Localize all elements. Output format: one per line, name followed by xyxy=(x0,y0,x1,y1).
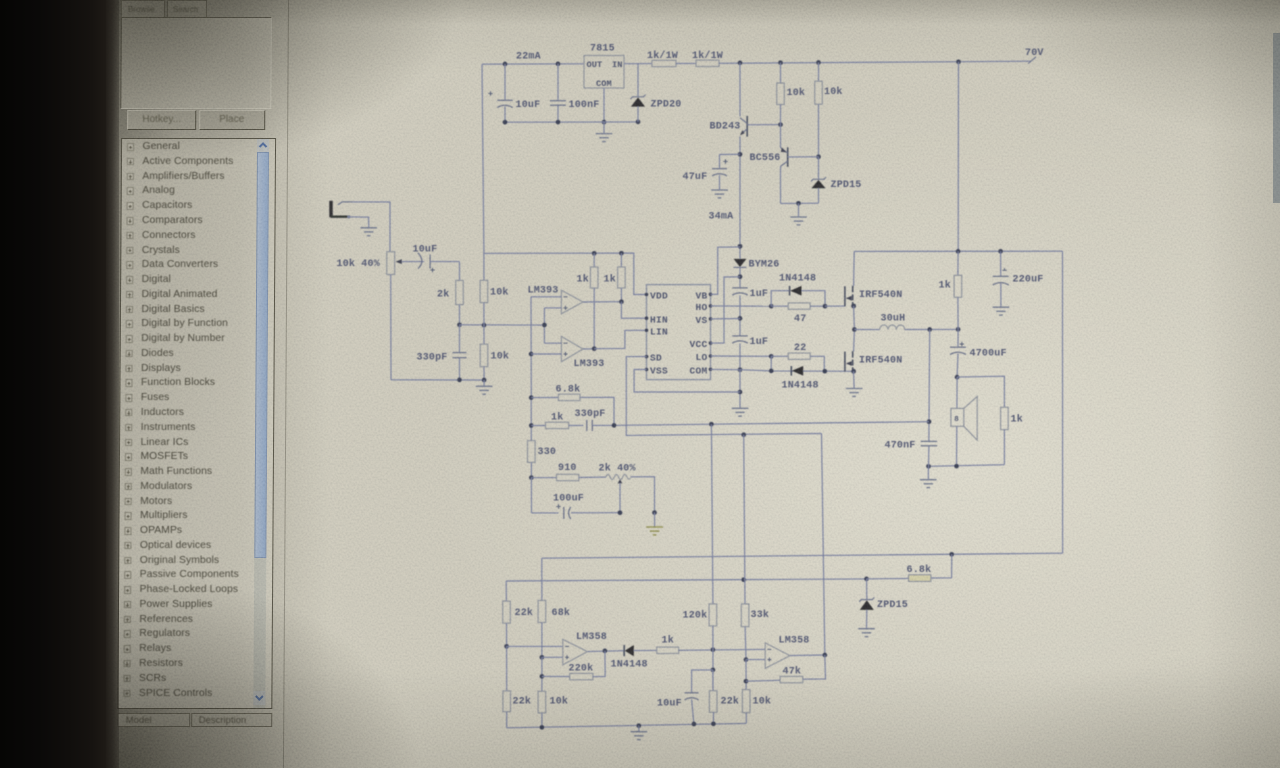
label 10k 40% xyxy=(337,258,380,270)
svg-text:1k/1W: 1k/1W xyxy=(692,50,723,62)
wire lf bottom xyxy=(507,723,747,727)
resistor R19 220k xyxy=(542,651,605,680)
node 425-120k xyxy=(709,422,714,427)
label 6.8k R14 xyxy=(907,564,932,576)
resistor R22 22k xyxy=(709,670,717,724)
resistor R7 10k lower xyxy=(480,344,488,380)
svg-text:1k: 1k xyxy=(577,274,589,286)
node out-470nF xyxy=(927,327,932,332)
svg-text:68k: 68k xyxy=(552,607,571,619)
capacitor C3 47uF xyxy=(712,154,740,189)
node mid rail 325 xyxy=(482,323,487,328)
label IRF540N M1 xyxy=(859,290,902,301)
svg-text:330pF: 330pF xyxy=(417,353,448,364)
wire 33k drop xyxy=(744,627,747,660)
node U4A noninv xyxy=(540,655,545,660)
label 1k R12 xyxy=(939,280,951,292)
label 1k R20 xyxy=(662,635,674,647)
svg-text:6.8k: 6.8k xyxy=(907,564,932,576)
resistor R28 6.8k xyxy=(558,394,580,400)
pin HIN xyxy=(645,314,668,325)
wire 22k row xyxy=(506,579,866,581)
wire x740 from 34mA xyxy=(739,246,741,258)
svg-text:1k: 1k xyxy=(662,635,674,647)
wire R1-R2 xyxy=(676,62,696,64)
wire 1k branch top xyxy=(957,376,1004,407)
wire 22k riser xyxy=(505,581,507,601)
wire SD path xyxy=(626,357,821,436)
wire 68k riser xyxy=(541,558,543,600)
label 1k R29 xyxy=(551,412,563,424)
node rail2-220uF xyxy=(998,249,1003,254)
label 470nF xyxy=(885,441,916,452)
svg-text:10uF: 10uF xyxy=(516,100,541,111)
svg-text:10k: 10k xyxy=(753,696,772,708)
svg-text:BD243: BD243 xyxy=(710,122,741,133)
pin LIN xyxy=(645,326,668,337)
wire LIN path xyxy=(594,330,646,348)
svg-text:OUT: OUT xyxy=(587,60,603,70)
label 4700uF xyxy=(970,349,1007,360)
node HO loop left xyxy=(769,304,774,309)
svg-text:47k: 47k xyxy=(783,666,802,678)
svg-text:33k: 33k xyxy=(751,609,770,621)
svg-text:1N4148: 1N4148 xyxy=(611,660,648,671)
comparator U1B LM393 xyxy=(561,336,583,361)
resistor R12 1k xyxy=(954,251,962,329)
wire 1k-cap xyxy=(569,424,584,426)
svg-text:47: 47 xyxy=(794,314,806,325)
svg-text:SD: SD xyxy=(650,353,662,364)
label 10uF C11 xyxy=(657,699,682,710)
capacitor C12 100uF xyxy=(531,478,620,519)
svg-text:220k: 220k xyxy=(569,663,594,675)
node LO loop bl xyxy=(769,369,774,374)
svg-text:22k: 22k xyxy=(513,696,532,708)
capacitor C13 330pF xyxy=(587,420,614,431)
connector J1 audio jack xyxy=(329,201,352,219)
svg-text:47uF: 47uF xyxy=(683,172,708,183)
svg-text:30uH: 30uH xyxy=(881,314,906,325)
wire Q2 collector drop xyxy=(780,166,782,203)
resistor R8 1k xyxy=(590,253,598,348)
wire U4B out xyxy=(790,654,825,657)
node U4B noninv xyxy=(744,657,749,662)
node 1kA top xyxy=(592,251,597,256)
label 10uF xyxy=(516,100,541,111)
node lf3 xyxy=(692,722,697,727)
label 22k R22 xyxy=(721,696,740,708)
resistor R15 33k xyxy=(741,604,749,627)
node LO loop br xyxy=(822,369,827,374)
label 120k xyxy=(683,610,708,622)
label 22k R17 xyxy=(515,607,534,619)
node lf4 xyxy=(711,721,716,726)
wire R17b drop xyxy=(506,646,508,691)
wire 6.8k right xyxy=(580,397,614,425)
wire rail x740 mid xyxy=(739,136,741,246)
diode D2 1N4148 xyxy=(790,286,802,296)
resistor R9 1k xyxy=(618,253,626,302)
label BC556 xyxy=(750,153,781,164)
zener diode ZPD20 xyxy=(631,64,646,122)
svg-text:1N4148: 1N4148 xyxy=(782,381,819,392)
node U4B out xyxy=(822,653,827,658)
label 1N4148 D4 xyxy=(611,660,648,671)
svg-text:1k: 1k xyxy=(1011,414,1023,426)
comparator U1A LM393 xyxy=(561,290,583,314)
svg-text:10k: 10k xyxy=(491,351,510,363)
svg-text:6.8k: 6.8k xyxy=(556,384,581,396)
capacitor C4 10uF plates xyxy=(418,253,430,269)
node rail x780 xyxy=(778,60,783,65)
polarity + C1 xyxy=(488,91,492,95)
resistor R25 10k xyxy=(538,691,546,727)
wire HO loop right xyxy=(802,291,826,307)
wire VCC path xyxy=(711,277,741,343)
potentiometer P1 wiper xyxy=(396,259,425,264)
wire bias bottom xyxy=(781,202,819,204)
pin SD xyxy=(645,353,662,364)
label 7815 xyxy=(590,44,615,55)
wire speaker bottom stem xyxy=(956,426,958,466)
polarity + C8 xyxy=(1002,268,1006,270)
wire C4 to 2k xyxy=(430,262,459,281)
capacitor C6 1uF xyxy=(732,288,748,295)
node 553-6.8k xyxy=(949,552,954,557)
svg-text:22k: 22k xyxy=(721,696,740,708)
svg-text:IRF540N: IRF540N xyxy=(859,356,902,367)
svg-text:IN: IN xyxy=(612,60,623,70)
wire U1A output xyxy=(583,301,621,303)
pin label OUT xyxy=(587,60,603,70)
svg-text:1uF: 1uF xyxy=(750,289,769,300)
wire VB path xyxy=(711,247,741,294)
wire 1k branch bottom xyxy=(1003,430,1005,465)
svg-text:VCC: VCC xyxy=(689,339,707,350)
svg-text:120k: 120k xyxy=(683,610,708,622)
wire 33k riser xyxy=(744,435,745,604)
opamp U4A LM358 xyxy=(563,639,588,665)
resistor R27 910 xyxy=(531,474,578,480)
wire 1k row xyxy=(531,425,545,427)
wire BYM26-C6 xyxy=(739,267,741,287)
wire top rail left segment xyxy=(482,63,584,65)
node rail x740 xyxy=(738,61,743,66)
svg-text:1k: 1k xyxy=(551,412,563,424)
wire 33k drop2 xyxy=(745,660,747,690)
svg-text:10k: 10k xyxy=(787,87,806,99)
wire U4A inv row xyxy=(507,645,563,647)
node C2 bottom xyxy=(556,120,561,125)
resistor R26 330 xyxy=(528,398,536,478)
node 120k-row xyxy=(711,647,716,652)
label BD243 xyxy=(710,122,741,133)
capacitor C7 1uF xyxy=(732,336,748,343)
regulator U2 7815 box xyxy=(584,56,624,89)
node COM bottom xyxy=(602,120,607,125)
wire pot bottom drop xyxy=(390,275,392,380)
node COM junction xyxy=(738,367,743,372)
gate driver U3 box xyxy=(647,285,711,380)
svg-text:10k: 10k xyxy=(824,86,843,98)
svg-text:1k: 1k xyxy=(604,274,616,286)
wire right rail drop xyxy=(1062,251,1064,553)
node half-bridge mid xyxy=(852,327,857,332)
wire U4B noninv row xyxy=(746,659,765,661)
node pot wiper bottom xyxy=(618,510,623,515)
svg-text:10uF: 10uF xyxy=(657,699,682,710)
svg-text:1N4148: 1N4148 xyxy=(779,274,816,285)
wire U1B input a xyxy=(544,342,561,344)
node 6.8krow xyxy=(529,395,534,400)
wire HO row xyxy=(711,305,772,307)
label LM393 upper xyxy=(528,286,559,297)
label 330 xyxy=(538,447,557,458)
wire M1 drain xyxy=(853,251,856,286)
wire mid to L1 xyxy=(854,329,879,331)
opamp U4B LM358 xyxy=(765,643,790,669)
ground bias xyxy=(790,203,807,225)
ground pot xyxy=(646,513,663,535)
node 22krow-zener xyxy=(864,577,869,582)
pin VS xyxy=(695,315,712,326)
svg-text:VB: VB xyxy=(695,290,707,301)
svg-text:VDD: VDD xyxy=(650,291,668,302)
label 10k R6 xyxy=(490,287,509,299)
svg-text:10k 40%: 10k 40% xyxy=(337,258,380,270)
label 10k R4 xyxy=(824,86,843,98)
ground ZPD15 b xyxy=(858,629,875,637)
wire R10 to gate xyxy=(810,305,825,307)
capacitor C2 100nF plates xyxy=(550,101,566,106)
svg-text:2k 40%: 2k 40% xyxy=(599,463,636,475)
node C1 bottom xyxy=(503,120,508,125)
wire U1B input b xyxy=(531,353,561,355)
pin label IN xyxy=(612,60,623,70)
transistor M2 IRF540N xyxy=(845,351,856,374)
node speaker bottom xyxy=(954,464,959,469)
label 68k R18 xyxy=(552,607,571,619)
label BYM26 xyxy=(749,260,780,271)
wire pot right xyxy=(630,477,654,513)
label 70V xyxy=(1025,48,1044,59)
wire rail to R1 xyxy=(624,63,652,65)
node 22krow-33k xyxy=(741,577,746,582)
wire R11 right xyxy=(810,356,824,371)
resistor R4 10k xyxy=(815,63,823,157)
node R5-C5 xyxy=(457,322,462,327)
svg-text:LM358: LM358 xyxy=(576,632,607,643)
label 220uF xyxy=(1013,275,1044,286)
wire COM row xyxy=(711,369,854,371)
wire C6-VS xyxy=(739,295,741,335)
resistor R21 47k xyxy=(746,655,826,683)
svg-text:4700uF: 4700uF xyxy=(970,349,1007,360)
node HO loop right xyxy=(823,304,828,309)
wire M2 drain xyxy=(853,330,856,352)
wire U1A inv input xyxy=(531,296,561,298)
pin label COM xyxy=(596,79,612,89)
label 22 xyxy=(794,343,806,354)
wire SD drop to opamp xyxy=(822,434,825,656)
svg-text:22: 22 xyxy=(794,343,806,354)
ground osc xyxy=(476,380,493,394)
wire VS path xyxy=(711,318,741,320)
wire osc bottom xyxy=(391,379,484,381)
node LO loop left xyxy=(769,354,774,359)
capacitor C1 10uF plates xyxy=(497,100,513,107)
label 1N4148 D2 xyxy=(779,274,816,285)
node Q1 base-R3 xyxy=(778,122,783,127)
ground C3 xyxy=(711,190,728,198)
pin HO xyxy=(695,302,712,313)
node 470nF top xyxy=(927,419,932,424)
terminal 70V tick xyxy=(1028,57,1036,64)
node osc gnd xyxy=(482,378,487,383)
node VSS junction xyxy=(738,390,743,395)
label 1k R9 xyxy=(604,274,616,286)
label 1k R8 xyxy=(577,274,589,286)
label 330pF C13 xyxy=(575,409,606,420)
label 2k 40% xyxy=(599,463,636,475)
node x531 lower-inv xyxy=(529,352,534,357)
label 47k xyxy=(783,666,802,678)
svg-text:22mA: 22mA xyxy=(516,52,541,63)
svg-text:HO: HO xyxy=(695,302,707,313)
svg-text:330pF: 330pF xyxy=(575,409,606,420)
ground M2 xyxy=(846,389,863,397)
node R4 base junction xyxy=(816,154,821,159)
wire Q1 base xyxy=(747,124,780,126)
wire top rail2 xyxy=(854,250,1062,252)
node lf1 xyxy=(540,725,545,730)
node rail2-1k xyxy=(956,249,961,254)
polarity + C4 xyxy=(430,268,434,272)
node 220k left xyxy=(540,674,545,679)
label 22k R24 xyxy=(513,696,532,708)
wire 6.8k row xyxy=(531,397,558,399)
node 470nF bottom xyxy=(926,464,931,469)
svg-text:LIN: LIN xyxy=(650,326,668,337)
label 100nF xyxy=(569,100,600,111)
resistor R2 1k/1W xyxy=(696,60,719,66)
pin VDD xyxy=(645,291,668,302)
inductor L1 30uH xyxy=(880,325,905,330)
capacitor C8 220uF xyxy=(993,251,1009,306)
label ZPD20 xyxy=(651,100,682,111)
wire speaker bottom row xyxy=(929,465,1005,467)
label LM358 U4A xyxy=(576,632,607,643)
wire plus-row xyxy=(460,324,545,326)
svg-text:IRF540N: IRF540N xyxy=(859,290,902,301)
node 10uF tap xyxy=(503,62,508,67)
svg-text:10k: 10k xyxy=(550,696,569,708)
label 30uH xyxy=(881,314,906,325)
resistor R14 6.8k xyxy=(867,554,952,581)
node osc bottom xyxy=(457,378,462,383)
wire VSS path xyxy=(634,370,740,393)
node ZPD20 bottom xyxy=(636,120,641,125)
wire speaker stem xyxy=(956,377,958,408)
resistor R20 1k xyxy=(657,647,679,653)
svg-text:HIN: HIN xyxy=(650,314,668,325)
resistor R23 10k xyxy=(742,690,750,724)
wire U1B output xyxy=(583,348,594,350)
label 330pF C5 xyxy=(417,353,448,364)
resistor R3 10k xyxy=(777,63,785,148)
wire top rail right segment xyxy=(719,61,1031,63)
wire COM stem xyxy=(603,88,605,122)
wire 120k drop2 xyxy=(712,626,714,691)
ground jack xyxy=(360,228,377,236)
svg-text:ZPD20: ZPD20 xyxy=(651,100,682,111)
ground x740 xyxy=(732,408,749,416)
diode D1 BYM26 xyxy=(734,259,747,268)
polarity + C9 xyxy=(960,342,964,346)
svg-text:22k: 22k xyxy=(515,607,534,619)
label 1uF C7 xyxy=(750,337,769,348)
wire jack top xyxy=(352,202,390,252)
resistor R24 22k xyxy=(503,691,511,728)
node x740 top xyxy=(738,244,743,249)
zener diode ZPD15 b xyxy=(859,579,874,628)
resistor R1 1k/1W xyxy=(652,60,676,66)
label 1k/1W xyxy=(647,50,678,62)
potentiometer P1 10k body xyxy=(387,252,395,275)
wire jack sleeve xyxy=(348,217,369,228)
svg-text:LM393: LM393 xyxy=(528,286,559,297)
wire U4A noninv row xyxy=(542,656,563,658)
label 10k R7 xyxy=(491,351,510,363)
label 2k xyxy=(437,289,449,301)
svg-text:ZPD15: ZPD15 xyxy=(831,180,862,191)
svg-text:330: 330 xyxy=(538,447,557,458)
node 100nF tap xyxy=(556,62,561,67)
svg-text:LM358: LM358 xyxy=(779,636,810,647)
label 1N4148 D3 xyxy=(782,381,819,392)
label 6.8k R28 xyxy=(556,384,581,396)
node 330pF junction xyxy=(612,423,617,428)
svg-text:1k/1W: 1k/1W xyxy=(647,50,678,62)
wire LO loop left drop xyxy=(770,356,772,371)
wire Q2 base xyxy=(788,156,819,158)
svg-text:470nF: 470nF xyxy=(885,441,916,452)
wire gate M1 xyxy=(825,305,845,307)
svg-text:1uF: 1uF xyxy=(750,337,769,348)
label 1k R13 xyxy=(1011,414,1023,426)
label 220k xyxy=(569,663,594,675)
svg-text:34mA: 34mA xyxy=(709,212,734,223)
label 100uF xyxy=(553,494,584,505)
resistor R13 1k xyxy=(1001,407,1009,429)
label 22mA xyxy=(516,52,541,63)
svg-text:7815: 7815 xyxy=(590,44,615,55)
wire 910-pot xyxy=(579,476,607,478)
label LM393 lower xyxy=(574,359,605,370)
pin VB xyxy=(695,290,712,301)
wire U4A out xyxy=(588,650,625,653)
diode D3 1N4148 xyxy=(791,366,803,376)
polarity + C3 xyxy=(723,159,727,163)
wire U1A noninv input xyxy=(544,307,561,309)
label 10uF C4 xyxy=(413,245,438,256)
svg-text:LM393: LM393 xyxy=(574,359,605,370)
label LM358 U4B xyxy=(779,636,810,647)
ground C8 xyxy=(993,307,1010,315)
pin VSS xyxy=(645,366,668,377)
diode D4 1N4148 xyxy=(624,645,634,656)
